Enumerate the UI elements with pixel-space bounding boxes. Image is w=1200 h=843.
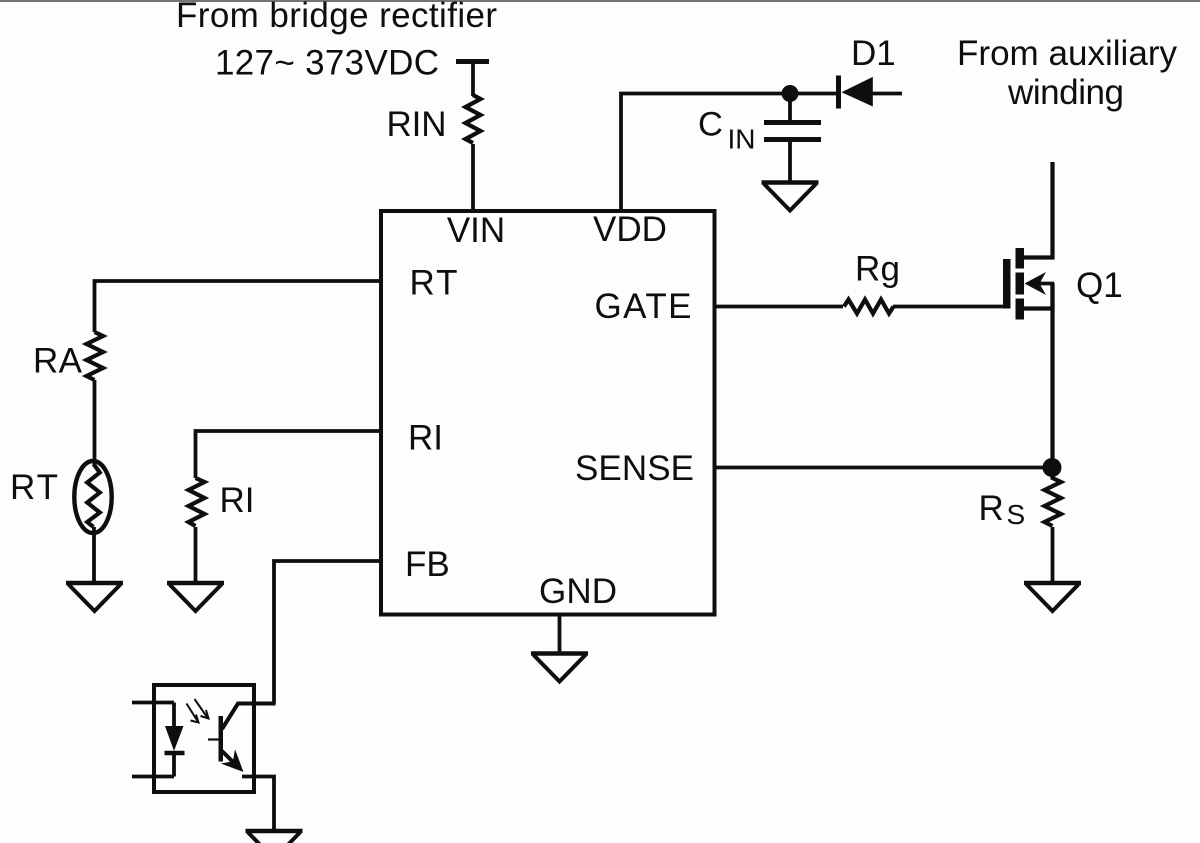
- Q1 source connection: [1024, 283, 1053, 309]
- wire GATE to Rg: [714, 305, 843, 309]
- LED cathode lead: [172, 753, 176, 777]
- svg-text:Q1: Q1: [1076, 266, 1123, 305]
- svg-text:RI: RI: [220, 481, 255, 520]
- capacitor CIN bottom lead: [788, 141, 792, 183]
- optocoupler left pin bottom: [132, 775, 174, 779]
- svg-text:RT: RT: [410, 264, 458, 303]
- svg-text:Rg: Rg: [855, 250, 900, 289]
- thermistor RT ellipse: [74, 461, 111, 533]
- resistor RA zigzag: [87, 332, 104, 380]
- Q1 substrate arrow: [1036, 282, 1054, 286]
- svg-text:FB: FB: [405, 545, 450, 584]
- svg-text:D1: D1: [851, 34, 896, 73]
- top gray border bar: [0, 0, 1200, 2]
- ground below GND pin: [531, 651, 588, 655]
- node dot SENSE/Rs: [1043, 458, 1062, 477]
- phototransistor emitter: [222, 751, 238, 767]
- Q1 drain connection: [1024, 162, 1053, 258]
- svg-text:127~ 373VDC: 127~ 373VDC: [215, 44, 439, 83]
- phototransistor base stub: [208, 738, 219, 740]
- svg-text:SENSE: SENSE: [575, 449, 694, 488]
- ground below RI: [167, 581, 224, 585]
- wire Rs to ground: [1051, 527, 1055, 583]
- wire terminal to RIN: [471, 62, 475, 97]
- optocoupler U2 box: [154, 685, 254, 792]
- ground below thermistor: [66, 581, 123, 585]
- light arrow 2: [195, 699, 208, 717]
- LED cathode bar: [165, 751, 185, 756]
- wire thermistor to ground: [92, 527, 96, 583]
- capacitor CIN top lead: [788, 99, 792, 121]
- svg-text:GND: GND: [539, 572, 617, 611]
- ground below CIN: [762, 180, 819, 184]
- wire RI to ground: [194, 527, 198, 583]
- resistor Rg zigzag: [844, 300, 894, 314]
- wire Rg to gate: [893, 305, 1006, 309]
- ground below Rs: [1024, 581, 1081, 585]
- svg-text:IN: IN: [728, 124, 756, 155]
- transistor Q1 gate bar: [1003, 259, 1011, 309]
- resistor RI zigzag: [189, 478, 205, 526]
- wire GND pin: [558, 614, 562, 655]
- phototransistor base bar: [219, 716, 224, 762]
- svg-text:RA: RA: [33, 342, 83, 381]
- wire SENSE: [714, 466, 1053, 470]
- svg-text:winding: winding: [1007, 73, 1124, 112]
- thermistor RT inner zigzag: [87, 464, 100, 527]
- capacitor CIN plates: [764, 120, 821, 125]
- resistor RS zigzag: [1045, 471, 1062, 526]
- svg-text:RI: RI: [408, 419, 443, 458]
- svg-text:C: C: [698, 106, 723, 144]
- wire Q1 source down to SENSE node: [1050, 283, 1054, 468]
- wire RIN to VIN pin: [471, 144, 475, 212]
- svg-text:GATE: GATE: [595, 287, 692, 326]
- light arrow 1: [187, 704, 198, 722]
- phototransistor collector: [222, 704, 276, 730]
- svg-text:RT: RT: [10, 468, 58, 507]
- wire RT pin to RA: [95, 281, 382, 332]
- transistor Q1 channel segments: [1016, 248, 1025, 269]
- diode D1 cathode bar: [836, 76, 841, 109]
- wire RI pin: [196, 431, 382, 478]
- wire D1 to auxiliary: [872, 92, 902, 96]
- svg-text:S: S: [1007, 499, 1026, 530]
- diode D1 triangle: [842, 77, 873, 107]
- svg-text:From bridge rectifier: From bridge rectifier: [176, 0, 497, 35]
- ground below optocoupler: [246, 829, 303, 833]
- LED anode lead: [172, 703, 176, 728]
- resistor RIN zigzag: [466, 95, 481, 143]
- wire FB pin down to optocoupler: [274, 561, 381, 704]
- input terminal T-bar: [456, 59, 489, 64]
- svg-text:R: R: [979, 489, 1004, 528]
- IC box U1: [381, 211, 715, 615]
- svg-text:RIN: RIN: [387, 105, 447, 144]
- svg-text:VIN: VIN: [447, 211, 505, 250]
- svg-text:VDD: VDD: [593, 210, 667, 249]
- optocoupler left pin top: [132, 701, 174, 705]
- LED triangle: [165, 726, 184, 751]
- wire RA to thermistor: [93, 380, 97, 466]
- node junction dot at VDD/CIN/D1: [782, 85, 799, 102]
- emitter wire to ground: [242, 777, 274, 832]
- wire VDD up and right: [621, 94, 838, 213]
- svg-text:From auxiliary: From auxiliary: [957, 34, 1178, 73]
